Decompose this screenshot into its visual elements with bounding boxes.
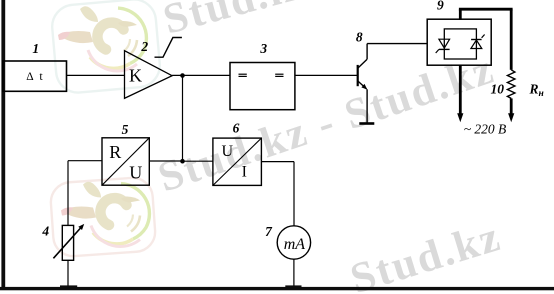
node junction J2 <box>180 159 185 164</box>
wire milliammeter to bottom rail <box>285 259 301 289</box>
svg-text:5: 5 <box>122 122 129 137</box>
converter U6 (U/I) <box>213 138 262 185</box>
svg-text:Stud.kz: Stud.kz <box>345 213 507 294</box>
op-amp U2 (amplifier K) <box>125 51 173 99</box>
wire J2 to converter6 <box>183 160 213 162</box>
wire rheostat to bottom rail <box>60 260 77 289</box>
wire thick top bus from block 9 <box>459 9 513 70</box>
svg-text:1: 1 <box>32 41 39 56</box>
wire converter5 left to rheostat column <box>68 161 102 226</box>
wire converter6 to milliammeter <box>261 162 294 226</box>
svg-text:Δ: Δ <box>26 71 33 83</box>
svg-text:K: K <box>129 66 142 86</box>
block U1 (delta-t sensor) <box>3 61 67 91</box>
svg-text:U: U <box>222 143 234 160</box>
node junction J1 <box>180 73 185 78</box>
resistor R10 (load Rn) <box>507 70 515 123</box>
svg-text:~ 220 В: ~ 220 В <box>464 122 507 137</box>
rheostat R4 (variable resistor) <box>53 224 84 260</box>
comparator U3 <box>230 63 295 110</box>
thyristor VS1 (left, conducts down) <box>436 39 450 53</box>
wire collector to thyristor block <box>367 43 427 45</box>
milliammeter P7 <box>277 226 310 259</box>
wire block1 to amplifier <box>67 74 125 76</box>
svg-text:4: 4 <box>41 224 49 239</box>
svg-text:9: 9 <box>437 0 444 13</box>
limiter characteristic symbol <box>155 38 182 58</box>
svg-text:7: 7 <box>265 224 273 239</box>
svg-text:8: 8 <box>356 30 363 45</box>
svg-text:R: R <box>109 142 121 162</box>
svg-text:6: 6 <box>233 121 240 136</box>
converter U5 (R/U) <box>102 138 149 185</box>
transistor Q8 <box>358 44 368 124</box>
svg-text:2: 2 <box>140 39 148 54</box>
svg-text:10: 10 <box>490 81 504 96</box>
svg-text:Stud.kz - Stud.kz: Stud.kz - Stud.kz <box>153 45 501 201</box>
wire amplifier to comparator <box>172 74 230 76</box>
svg-text:3: 3 <box>259 41 267 56</box>
wire comparator to transistor base <box>295 74 358 76</box>
svg-text:Stud.kz: Stud.kz <box>158 0 319 44</box>
svg-text:t: t <box>39 69 43 83</box>
svg-text:U: U <box>129 163 142 183</box>
wire converter5 to J2 <box>149 160 182 162</box>
thyristor VS2 (right, conducts up) <box>471 35 485 49</box>
wire J1 down to J2 <box>182 76 184 162</box>
thyristor block U9 <box>427 19 491 65</box>
wire thick bottom lead with arrow (to 220V) <box>457 65 463 122</box>
svg-text:Rн: Rн <box>529 81 544 99</box>
svg-text:mA: mA <box>284 236 306 253</box>
ground <box>359 122 374 125</box>
svg-text:I: I <box>242 163 247 180</box>
